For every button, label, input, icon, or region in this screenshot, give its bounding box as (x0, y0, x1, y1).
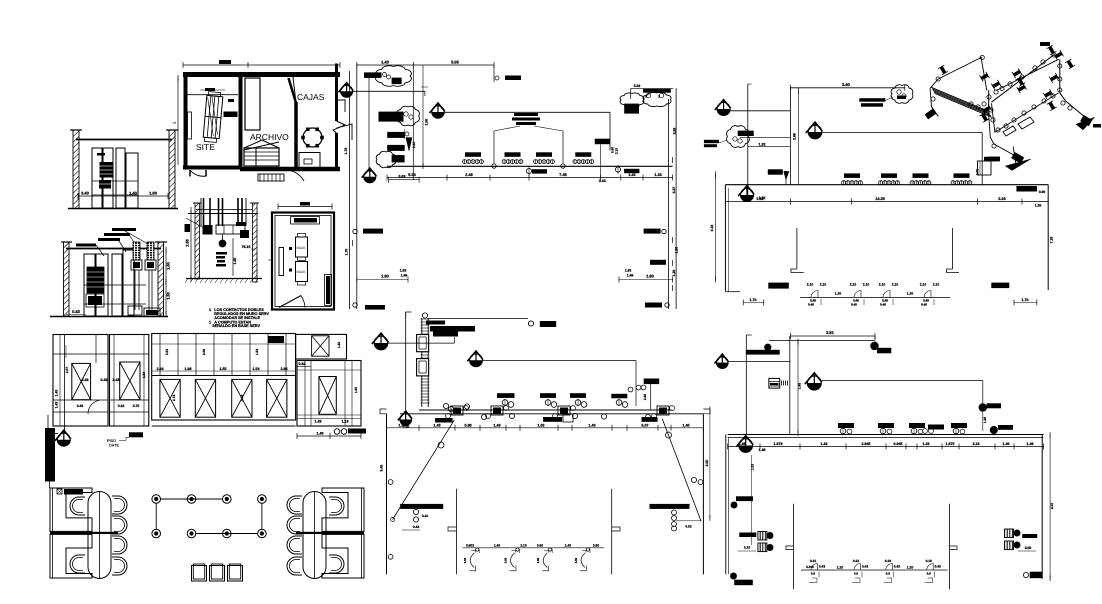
diagM filled circle on bar (765, 344, 771, 350)
diagL drop from label to bus (650, 384, 652, 409)
diagI benchmark mid (432, 106, 444, 118)
svg-text:2.10: 2.10 (520, 543, 526, 547)
isometric tray left post (930, 88, 931, 107)
diagJ left vertical dim 3.18 (715, 174, 717, 279)
elevation2 conduit down tails (134, 270, 136, 310)
diagJ benchmark left (717, 103, 730, 116)
diagL vertical chain conduit (422, 313, 427, 318)
rackroom top equipment black bar (291, 217, 320, 225)
svg-text:0.9: 0.9 (886, 572, 891, 576)
svg-text:2.45: 2.45 (643, 394, 647, 400)
detail filled circle device (219, 240, 226, 247)
diagM riser vertical 1 (745, 335, 747, 435)
svg-text:1.43: 1.43 (381, 60, 390, 65)
diagJ bottom arc group row (800, 297, 950, 299)
svg-text:0.75: 0.75 (133, 404, 140, 408)
panelG3 mid band (152, 375, 296, 377)
detail dim bracket left (190, 210, 192, 278)
diagM upper horizontal line (769, 339, 875, 341)
detail right hatched column (253, 203, 258, 282)
diagI right bracket 1.80 (619, 279, 673, 281)
svg-text:1.43: 1.43 (55, 390, 59, 397)
diagL extra bus circles (443, 403, 448, 408)
svg-text:1.43: 1.43 (315, 420, 322, 424)
workstation left mid bar (50, 532, 118, 534)
svg-text:3.43: 3.43 (113, 378, 120, 382)
diagL main bus double line (419, 409, 672, 411)
svg-text:3.50: 3.50 (593, 543, 599, 547)
diagI top dimension line (357, 64, 494, 66)
svg-text:SITE: SITE (196, 142, 215, 152)
shelf box ARCHIVO (244, 148, 279, 166)
diagM benchmark on bus (739, 439, 753, 453)
panelG3 bottom line (152, 425, 296, 427)
diagI circle symbol on line (526, 168, 531, 173)
svg-text:0.82: 0.82 (299, 362, 306, 366)
svg-text:1: 1 (209, 308, 211, 312)
isometric small black blobs (1040, 42, 1050, 46)
svg-text:1.55: 1.55 (398, 423, 405, 427)
svg-text:1.49: 1.49 (401, 274, 408, 278)
diagJ cloud right (891, 85, 913, 103)
diagL top line circle (528, 321, 533, 326)
diagJ top frame vertical (789, 87, 791, 185)
svg-text:0.10: 0.10 (926, 559, 932, 563)
svg-text:1.54: 1.54 (255, 349, 259, 355)
svg-text:3.18: 3.18 (973, 442, 980, 446)
diagM main bus double line (728, 434, 1044, 436)
diagI top right cloud (620, 93, 644, 107)
rackroom right black bar (325, 275, 332, 306)
svg-text:2.10: 2.10 (820, 283, 827, 287)
panelG1 outline (53, 335, 108, 427)
diagI small cloud lower left (376, 151, 396, 167)
svg-text:1.80: 1.80 (646, 274, 655, 279)
svg-text:3.08: 3.08 (202, 349, 206, 355)
svg-text:0.43: 0.43 (819, 564, 825, 568)
svg-text:2.50: 2.50 (425, 119, 429, 126)
diagM dim line right of riser2 (797, 342, 799, 434)
svg-text:4.10: 4.10 (1050, 503, 1054, 509)
interior thin line SITE (187, 94, 238, 96)
detail beam line 2 (196, 209, 252, 211)
ARCHIVO furniture table (245, 78, 260, 130)
svg-text:2.84: 2.84 (157, 367, 164, 371)
svg-text:ARCHIVO: ARCHIVO (250, 132, 289, 142)
diagJ bottom left blob (768, 283, 789, 289)
elevation2 rack dense equipment (87, 267, 104, 293)
svg-text:5.05: 5.05 (451, 60, 460, 65)
elevation1 rack frame A (92, 148, 102, 208)
diagJ bottom right blob (991, 283, 1009, 289)
isometric equipment boxes on rising line (1018, 117, 1034, 129)
diagJ interior wall stub left (796, 228, 798, 269)
elevation2 left column hatched (64, 242, 70, 316)
svg-text:3.18: 3.18 (710, 225, 714, 232)
svg-text:1.20: 1.20 (837, 565, 844, 569)
diagL black bar below bus right (642, 417, 658, 422)
diagI vertical dim 2.50 (422, 65, 424, 166)
equipment label black bar SITE (224, 112, 238, 118)
svg-text:2.84: 2.84 (281, 367, 288, 371)
panelG2 horizontals (110, 353, 149, 355)
diagM panel box symbol (769, 378, 780, 388)
floor plan left dimension (177, 78, 179, 165)
svg-text:SERALDO EN BASE SERV: SERALDO EN BASE SERV (212, 324, 260, 328)
workstation right center capsule (303, 492, 326, 579)
partition wall SITE-ARCHIVO (239, 74, 243, 169)
diagM interior wall right (949, 504, 951, 590)
svg-text:1.40: 1.40 (494, 543, 500, 547)
workstation left desk outline (50, 488, 92, 531)
diagL diagonal to right corner (662, 419, 701, 521)
diagL corner circle bottom left (388, 554, 393, 559)
outlet circles grid row2 (152, 529, 161, 538)
svg-text:1.02: 1.02 (751, 464, 755, 470)
diagJ bottom left bracket 1.70 (743, 302, 764, 304)
diagJ cloud left black bar (738, 131, 754, 136)
diagM filled circle at drop (979, 404, 987, 412)
window element left wall (188, 112, 192, 139)
elevation2 leader text left (76, 244, 96, 247)
elevation2 leader text TABLERO (98, 238, 120, 241)
diagM right circle on bus (990, 426, 997, 433)
diagJ bottom right bracket 1.70 (1014, 302, 1037, 304)
isometric lower quad left side (992, 103, 995, 132)
detail dim mid (232, 238, 234, 276)
diagL riser vertical to bus benchmark (405, 312, 407, 414)
svg-text:1.50: 1.50 (354, 387, 358, 393)
svg-text:3.40: 3.40 (842, 82, 851, 87)
diagJ top dimension line (790, 87, 904, 89)
svg-text:0.43: 0.43 (935, 564, 941, 568)
svg-text:7.18: 7.18 (1050, 237, 1054, 244)
svg-text:2.10: 2.10 (920, 283, 927, 287)
diagL bottom arc groups (471, 551, 475, 553)
diagL left circles column (413, 509, 418, 514)
svg-text:5.03: 5.03 (408, 173, 415, 177)
svg-text:0.43: 0.43 (77, 404, 84, 408)
shelf hatch diagonals ARCHIVO (244, 140, 262, 148)
diagM benchmark left (717, 357, 729, 369)
svg-text:2.49: 2.49 (465, 173, 472, 177)
svg-text:RACK: RACK (297, 270, 307, 274)
svg-text:1.70: 1.70 (750, 298, 757, 302)
diagJ receptacle group 1 (844, 173, 860, 178)
svg-text:0.43: 0.43 (101, 378, 108, 382)
floor plan bottom wall archivo (240, 167, 340, 172)
panelG3 outline (152, 334, 296, 421)
svg-text:3.56: 3.56 (673, 128, 677, 135)
detail floor hatch (185, 279, 188, 284)
svg-text:1.20: 1.20 (835, 292, 842, 296)
panelG5 verticals (304, 361, 306, 427)
diagI right label pair 2 (650, 260, 666, 265)
workstation left chairs (70, 497, 85, 515)
elevation2 rack frame A (84, 254, 95, 316)
panelG2 verticals (113, 335, 115, 427)
diagJ label at drop (984, 157, 998, 162)
svg-text:3.43: 3.43 (599, 179, 606, 183)
elevation1 floor line (68, 208, 178, 210)
diagJ vertical dim line 2.88 (798, 91, 800, 184)
svg-text:3.50: 3.50 (504, 557, 508, 563)
diagL diagonal to left corner (393, 420, 455, 519)
svg-text:1.50: 1.50 (167, 262, 171, 269)
diagL left corner junction (391, 518, 395, 522)
elevation2 rack frame B (112, 254, 122, 316)
diagI flag triangle (406, 138, 412, 151)
svg-text:1.13: 1.13 (342, 420, 349, 424)
diagL label at line end (644, 379, 660, 385)
elevation1 dimension line (78, 195, 168, 197)
workstation left small label (57, 489, 62, 494)
isometric tray right post (981, 57, 987, 91)
workstation right chairs (287, 496, 302, 514)
diagJ dimension line below bus (725, 201, 1048, 203)
diagJ line benchmark to riser (730, 110, 790, 112)
diagL right wall circle (698, 480, 703, 485)
svg-text:1.20: 1.20 (675, 247, 679, 254)
svg-text:0.945: 0.945 (894, 442, 903, 446)
diagJ benchmark 2 (808, 125, 822, 139)
diagJ black tag with flag (768, 169, 783, 174)
isometric lower quad rising line (995, 93, 1059, 132)
svg-text:2.845: 2.845 (862, 442, 871, 446)
diagM receptacle circles on bus (838, 423, 854, 428)
diagJ cloud left (727, 126, 750, 148)
rackroom outlet diamonds (289, 247, 292, 250)
diagM dimension line below bus (728, 446, 1044, 448)
svg-text:1.40: 1.40 (337, 342, 341, 348)
svg-text:RACK: RACK (297, 246, 307, 250)
panelG1 X brace box (72, 363, 91, 399)
diagI note text curly (514, 113, 538, 116)
elevation1 rack dense equipment upper (100, 162, 113, 178)
svg-text:2.88: 2.88 (793, 133, 797, 140)
diagL text blobs top (426, 321, 445, 325)
detail top beam line (188, 213, 258, 215)
svg-text:1.678: 1.678 (774, 442, 783, 446)
diagJ long line right (822, 131, 982, 133)
diagM left wall bottom circle bar (731, 573, 737, 579)
diagJ room right wall (1047, 185, 1049, 290)
diagJ text CIRCUITO PARA MUEBLE (859, 98, 885, 102)
svg-text:5.45: 5.45 (380, 465, 384, 472)
detail equipment row (216, 225, 245, 234)
diagL label bars above bus (497, 393, 515, 398)
svg-text:3.50: 3.50 (463, 557, 467, 563)
rackroom outer wall (272, 213, 334, 310)
elevation1 right column hatched (169, 130, 175, 209)
svg-text:3.43: 3.43 (81, 191, 90, 196)
diagI tick label 1.50 top (493, 65, 495, 82)
diagI top right black bar (643, 89, 671, 93)
panelG5 outline (297, 361, 361, 427)
diagJ benchmark on bus (741, 189, 754, 202)
panelG5 dim line (297, 418, 361, 420)
diagJ text DOBLE PARA MUEBLE (704, 140, 719, 143)
elevation2 conduit risers hatched (133, 242, 140, 260)
rackroom top dimension (278, 206, 332, 208)
diagL wall top notches (380, 409, 387, 414)
diagJ receptacle group 4 (954, 173, 970, 178)
outlet circles grid row1 (152, 495, 161, 504)
elevation2 floor boxes (128, 306, 142, 315)
elevation1 rack frame B (116, 148, 125, 208)
detail text blobs below (216, 252, 227, 255)
diagL right circles column (672, 510, 677, 515)
svg-text:1.45: 1.45 (798, 383, 802, 389)
svg-text:0.43: 0.43 (862, 564, 868, 568)
panelG5 horizontals (297, 369, 361, 371)
svg-text:5.03: 5.03 (634, 84, 641, 88)
diagI right label pair 1 (644, 229, 661, 234)
svg-text:3.50: 3.50 (1025, 546, 1032, 550)
three chairs bottom middle (192, 566, 207, 582)
svg-text:0.45: 0.45 (808, 303, 814, 307)
svg-text:1.40: 1.40 (317, 432, 324, 436)
wall notch right of CAJAS (337, 100, 346, 112)
panelG3 circles top right (268, 336, 284, 343)
svg-text:1.50: 1.50 (142, 372, 146, 378)
svg-text:CAJAS: CAJAS (297, 92, 325, 102)
diagI receptacle group 2 (505, 152, 521, 157)
PISO DATE label (129, 432, 143, 437)
isometric tray left end fitting (923, 106, 939, 122)
diagL black bar below bus mid (543, 417, 562, 422)
floor plan top wall (183, 72, 340, 77)
panelG4 X box (312, 336, 329, 356)
svg-text:3: 3 (658, 95, 660, 99)
diagM interior wall left (793, 504, 795, 590)
diagJ right blob above bus (1016, 186, 1037, 192)
diagM line to risers (728, 361, 790, 363)
elevation2 right column hatched (158, 242, 164, 316)
diagL chain box 2 (417, 359, 429, 376)
svg-text:1.78: 1.78 (344, 148, 348, 155)
elevation1 small label (97, 153, 105, 156)
svg-text:1.80: 1.80 (381, 274, 390, 279)
door leaf CAJAS (289, 78, 297, 103)
panelG5 X box (319, 377, 336, 415)
svg-text:1.63: 1.63 (625, 269, 632, 273)
rackroom inner wall line (275, 216, 331, 307)
diagL circle pairs below labels (502, 400, 508, 406)
diagJ room bus line (725, 184, 1048, 186)
svg-text:0.45: 0.45 (851, 303, 857, 307)
svg-text:0.18: 0.18 (118, 404, 125, 408)
svg-text:1.46: 1.46 (759, 448, 766, 452)
detail left hatched column (195, 203, 200, 279)
isometric lower leg arrow fitting (1006, 147, 1026, 167)
diagI label above dim 2.10 drop (595, 139, 610, 145)
svg-text:0.43: 0.43 (894, 564, 900, 568)
rackroom RACK3 box (296, 262, 308, 282)
diagM right dim bracket 4.10 (1049, 435, 1051, 578)
diagM hatched squares right (1005, 529, 1014, 538)
diagL transformer symbols on bus (451, 406, 463, 415)
svg-text:2.30: 2.30 (412, 142, 416, 148)
svg-text:1.675: 1.675 (946, 442, 955, 446)
svg-text:0.10: 0.10 (810, 559, 816, 563)
svg-text:0.43: 0.43 (72, 309, 81, 314)
diagI dimension line below ceiling (387, 177, 673, 179)
svg-text:2.43: 2.43 (629, 173, 636, 177)
svg-text:2.10: 2.10 (807, 283, 814, 287)
isometric main loop inner parallel (996, 59, 1059, 90)
diagL black bar long right (650, 504, 690, 509)
diagJ interior wall stub right (952, 228, 954, 269)
panelG3 top verticals (159, 334, 161, 376)
svg-text:3.50: 3.50 (536, 557, 540, 563)
diagI cloud mid left (397, 106, 420, 126)
diagL left wall circle (388, 480, 393, 485)
diagM extra circle pair mid (923, 429, 928, 434)
svg-text:2.10: 2.10 (850, 283, 857, 287)
svg-text:0.9: 0.9 (811, 572, 816, 576)
round table CAJAS (303, 128, 322, 147)
diagI receptacle group 4 (575, 152, 591, 157)
ground line left of elevation (50, 433, 58, 435)
svg-text:0.43: 0.43 (82, 378, 89, 382)
diagJ receptacle group 2 (881, 173, 897, 178)
panelG1 door arc (88, 400, 100, 414)
diagL top horizontal line (428, 317, 528, 319)
elevation2 right dim bracket (165, 250, 167, 314)
svg-text:1.43: 1.43 (565, 543, 571, 547)
svg-text:1: 1 (209, 320, 211, 324)
isometric tray top rail (938, 57, 982, 79)
svg-text:3.37: 3.37 (672, 187, 676, 194)
svg-text:14.28: 14.28 (875, 197, 885, 201)
floor plan top dimension line (183, 64, 340, 66)
workstation left corner connector (49, 481, 51, 488)
svg-text:0.075: 0.075 (806, 565, 814, 569)
svg-text:1.08: 1.08 (149, 191, 158, 196)
diagI left bracket 1.80 (357, 279, 408, 281)
diagI long horizontal line mid (444, 111, 610, 113)
dim marks above rack (205, 88, 215, 91)
svg-text:1.98: 1.98 (185, 367, 192, 371)
panelG2 X brace box (120, 362, 140, 400)
diagM hatched squares left (758, 532, 767, 541)
svg-text:1.49: 1.49 (627, 274, 634, 278)
diagM room left wall (725, 435, 727, 575)
floor plan bottom wall site (183, 166, 240, 170)
ground benchmark symbol (57, 433, 70, 446)
diagI revision cloud top (376, 66, 412, 87)
svg-text:1.20: 1.20 (907, 565, 914, 569)
svg-text:1.43: 1.43 (821, 442, 828, 446)
workstation left center capsule (88, 492, 111, 579)
panelG5 circles and bar bottom (334, 429, 340, 435)
desk CAJAS (299, 153, 320, 169)
diagI black bar at mid cloud (379, 112, 404, 122)
svg-text:1.50: 1.50 (167, 292, 171, 299)
riser line to ground symbol (64, 426, 66, 433)
svg-text:0.10: 0.10 (744, 546, 750, 550)
small dim text right of rack (228, 99, 234, 102)
diagL right wall (702, 414, 704, 575)
diagL dimension line below bus (387, 427, 704, 429)
svg-text:0.38: 0.38 (464, 423, 471, 427)
svg-text:2.10: 2.10 (892, 283, 899, 287)
elevation2 shelf lines (84, 284, 146, 286)
diagL bottom dimension line (463, 547, 605, 549)
diagL interior wall right (611, 489, 613, 575)
diagM room right wall (1041, 435, 1043, 579)
